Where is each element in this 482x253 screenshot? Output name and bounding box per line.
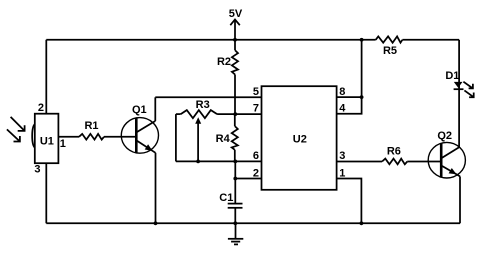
- wire Q1 collector vertical: [154, 97, 156, 121]
- wire pin8 junction up to top rail: [361, 40, 363, 97]
- wire U2 pin1 down to bottom rail: [337, 179, 362, 224]
- wire R6 to Q2 base: [407, 161, 440, 163]
- wire U1 pin3 to bottom rail: [45, 163, 47, 223]
- wire Q1 collector to U2 pin5: [155, 96, 261, 98]
- wire left vertical (U1 pin2 to top rail): [45, 40, 47, 114]
- junction pin1 / bottom rail: [360, 221, 364, 225]
- svg-text:Q1: Q1: [132, 104, 147, 116]
- junction 5V / top rail: [233, 38, 237, 42]
- junction pin8/pin4: [360, 95, 364, 99]
- svg-text:6: 6: [253, 150, 259, 162]
- photodetector U1: [32, 114, 58, 164]
- wire U2 pin7: [235, 113, 261, 115]
- wire Q1 emitter to bottom rail: [155, 153, 157, 224]
- transistor Q2: [428, 130, 465, 178]
- R3 wiper arrow: [195, 117, 201, 161]
- svg-text:5V: 5V: [229, 8, 243, 20]
- svg-text:R2: R2: [217, 56, 231, 68]
- wire U1 pin1 to R1: [58, 136, 79, 138]
- svg-text:U1: U1: [40, 135, 54, 147]
- svg-text:R3: R3: [196, 99, 210, 111]
- resistor R4: [216, 114, 238, 161]
- svg-text:R1: R1: [84, 120, 98, 132]
- junction Q1 emitter / bottom rail: [154, 221, 158, 225]
- resistor R6: [382, 145, 407, 164]
- wire right vertical (top corner to Q2 collector): [458, 40, 460, 147]
- wire U2 pin8: [337, 96, 362, 98]
- transistor Q1: [121, 104, 158, 153]
- U1 light arrow lower: [7, 129, 20, 141]
- wire top rail: [46, 39, 375, 41]
- power 5V: [229, 8, 243, 40]
- IC U2: [262, 86, 337, 190]
- wire top rail right of R5: [402, 39, 459, 41]
- svg-text:1: 1: [60, 138, 66, 150]
- wire Q2 emitter to bottom rail: [459, 176, 461, 223]
- junction C1 / bottom rail: [233, 221, 237, 225]
- junction R2/R3/R4/pin7: [233, 112, 237, 116]
- U1 light arrow upper: [11, 117, 25, 131]
- resistor R1: [79, 120, 104, 140]
- wire R3 left vertical: [175, 114, 177, 161]
- resistor R5: [376, 36, 403, 57]
- junction pin2 wire: [233, 177, 237, 181]
- wire R3 bottom / U2 pin6: [176, 160, 261, 162]
- svg-text:4: 4: [339, 103, 346, 115]
- wire U2 pin2: [235, 178, 261, 180]
- junction wiper / bottom wire: [196, 160, 200, 164]
- resistor R2: [217, 40, 238, 114]
- wire U2 pin3 to R6: [337, 161, 382, 163]
- ground: [228, 223, 243, 244]
- svg-text:Q2: Q2: [437, 130, 452, 142]
- svg-text:D1: D1: [445, 70, 459, 82]
- D1 emit arrow lower: [464, 90, 473, 97]
- D1 emit arrow upper: [463, 82, 473, 89]
- svg-text:5: 5: [253, 86, 259, 98]
- svg-text:U2: U2: [293, 133, 307, 145]
- svg-text:8: 8: [339, 86, 345, 98]
- potentiometer R3: [176, 99, 236, 118]
- svg-text:3: 3: [34, 163, 40, 175]
- svg-text:2: 2: [253, 167, 259, 179]
- svg-text:R6: R6: [387, 145, 401, 157]
- svg-text:1: 1: [339, 167, 345, 179]
- svg-text:7: 7: [253, 103, 259, 115]
- LED D1: [445, 70, 463, 89]
- svg-text:R4: R4: [216, 133, 231, 145]
- svg-text:C1: C1: [219, 192, 233, 204]
- svg-text:R5: R5: [383, 45, 397, 57]
- svg-text:2: 2: [38, 102, 44, 114]
- wire R1 to Q1 base: [104, 136, 135, 138]
- wire bottom rail: [46, 222, 460, 224]
- wire junction down to C1: [234, 161, 236, 203]
- capacitor C1: [219, 192, 242, 223]
- svg-text:3: 3: [339, 150, 345, 162]
- junction top rail / pin8 branch: [360, 38, 364, 42]
- wire U2 pin4 up to pin8 junction: [337, 97, 362, 114]
- junction R4 bottom / pin6: [233, 160, 237, 164]
